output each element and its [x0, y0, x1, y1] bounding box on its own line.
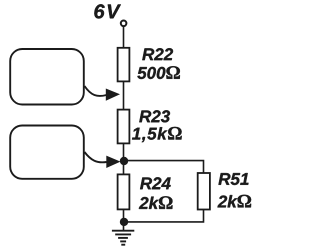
resistor R24 — [118, 174, 130, 209]
value 2k ohm R51 — [218, 195, 252, 208]
wire R51 to node B — [124, 210, 204, 222]
wire node B to ground — [123, 222, 125, 231]
label R51 — [219, 173, 249, 185]
supply label 6V — [94, 4, 121, 18]
callout box 1 — [10, 49, 84, 105]
label R22 — [142, 48, 173, 60]
label R23 — [139, 110, 170, 122]
wire R24 to node B — [123, 209, 125, 222]
wire terminal to R22 — [123, 26, 125, 48]
wire R23 to node A — [123, 143, 125, 161]
wire node A to R24 — [123, 161, 125, 175]
resistor R22 — [118, 48, 130, 82]
arrow from box 1 to node between R22 and R23 — [85, 86, 107, 96]
ground — [112, 231, 134, 245]
arrow from box 2 to node A — [85, 152, 107, 162]
value 2k ohm R24 — [139, 196, 173, 209]
wire node A to R51 branch — [124, 161, 204, 173]
value 1,5k ohm — [132, 127, 182, 142]
resistor R51 — [198, 173, 210, 210]
node B junction dot — [120, 218, 128, 226]
callout box 2 — [10, 126, 84, 179]
terminal circle — [121, 21, 127, 27]
value 500 ohm — [137, 66, 180, 79]
label R24 — [140, 177, 171, 189]
node A junction dot — [120, 157, 128, 165]
resistor R23 — [118, 110, 130, 144]
wire R22 to R23 — [123, 81, 125, 109]
